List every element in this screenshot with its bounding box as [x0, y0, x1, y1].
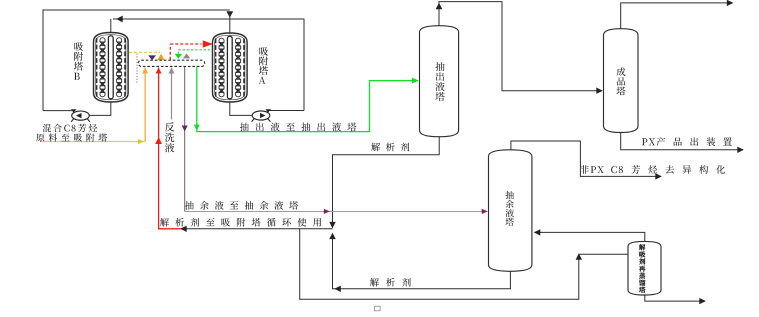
label: product tower: [617, 67, 626, 95]
wire: feed (orange) riser into valve: [144, 68, 146, 142]
wire: product tower overhead out: [621, 3, 733, 29]
label: desorbent redistillation tower: [639, 244, 645, 293]
label: raffinate tower: [506, 191, 515, 226]
wire: extract (green) from valve to extract tower: [197, 66, 418, 131]
orange arrow out of valve top: [157, 54, 165, 61]
wire: product tower bottom: PX product out: [621, 133, 743, 150]
label: adsorption tower B: [74, 42, 83, 80]
adsorber B bed packing: [100, 38, 122, 97]
pump P-A: [252, 111, 270, 120]
product tower vessel: [604, 29, 639, 133]
wire: desorbent recycle line to valve (black part): [181, 228, 333, 230]
adsorption tower A vessel: [213, 33, 248, 102]
wire: raffinate to raffinate tower (thin line): [185, 210, 488, 212]
extract tower vessel: [420, 26, 459, 137]
rotary valve (dashed box): [138, 60, 204, 66]
adsorption tower B vessel: [94, 33, 129, 103]
wire: redistillation overhead back to raffinate tower: [535, 232, 645, 241]
adsorber B central pipe: [108, 36, 113, 99]
wire: tower A riser from top manifold: [229, 14, 231, 33]
label: backwash liquid: [165, 122, 175, 152]
adsorber A bed packing: [219, 38, 241, 97]
wire: grey riser into valve (backwash label line): [171, 68, 173, 120]
wire: raffinate overhead: non-PX C8 to isomerization: [511, 141, 661, 176]
wire: tower B top riser: [110, 19, 112, 33]
label: raffinate to raffinate tower: [185, 201, 298, 210]
label: feed line 2: [36, 133, 107, 141]
label: extract to extract tower: [240, 122, 357, 131]
raffinate mid-line arrow: [182, 126, 188, 132]
wire: tower A bottom to tower B top (via right riser, y=19): [113, 19, 304, 111]
label: desorbent (lower): [370, 278, 411, 287]
label: PX product out: [642, 137, 732, 146]
wire: tower B bottom to tower A top (circulation via left/top): [43, 10, 230, 111]
label: adsorption tower A: [259, 47, 268, 84]
wire: backwash (red) riser into valve: [159, 68, 181, 229]
wire: yellow dashed valve to tower B: [129, 51, 160, 53]
wire: red dashed valve to tower A: [170, 44, 201, 60]
wire: redistillation bottoms out: [645, 295, 705, 301]
label: non-PX C8 aromatics to isomerization: [580, 165, 725, 174]
wire: maroon dotted stub at tower B: [136, 54, 138, 85]
wire: extract tower overhead to product tower: [439, 2, 602, 91]
wire: green dashed tower A to valve: [178, 50, 212, 65]
wire: feed (yellow) horizontal under feed label: [40, 141, 145, 143]
label: mixed C8 aromatics feed line 1: [43, 124, 97, 132]
raffinate tower vessel: [489, 150, 532, 271]
adsorber A central pipe: [227, 36, 232, 99]
wire: tower B bottom piping: [43, 101, 111, 115]
label: extract tower: [435, 62, 444, 101]
stray square glyph: [375, 306, 381, 311]
wire: desorbent take-off to redistillation tower: [300, 229, 628, 299]
wire: extract tower bottom desorbent down to recycle junction: [333, 137, 440, 228]
label: desorbent recycled to adsorption towers: [160, 218, 321, 227]
desorbent redistillation tower vessel: [628, 241, 661, 295]
grey arrow on valve top: [183, 54, 190, 59]
purple arrow into valve top: [148, 55, 156, 60]
wire: raffinate tower bottom to junction: [333, 234, 511, 289]
green arrow into valve top: [175, 54, 182, 59]
pump P-B: [72, 111, 90, 120]
wire: raffinate from valve down (dark mauve vertical): [184, 66, 186, 211]
label: desorbent (upper): [371, 143, 409, 152]
wire: tower A bottom piping: [230, 101, 304, 115]
